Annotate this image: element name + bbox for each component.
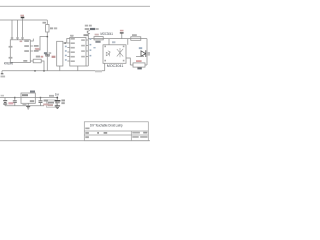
power 5V right stem [121, 33, 123, 38]
resistor R6 [133, 63, 145, 67]
pin stub U2 right y51 [86, 50, 88, 52]
label under rail faint [95, 70, 102, 72]
wire drive line left [88, 38, 147, 40]
wire VCC top rail [0, 19, 47, 21]
label C1 value [44, 52, 47, 54]
power 5V symbol bar [21, 17, 25, 19]
component box S1 [47, 100, 57, 107]
pin name IC1 inside top red [20, 41, 23, 43]
svg-text:ATMEGA8: ATMEGA8 [4, 62, 13, 66]
pin stub U2 right y45.5 [86, 45, 88, 47]
label R6 red above [136, 60, 142, 62]
label U2 ref top [84, 34, 89, 36]
resistor R5 [131, 37, 141, 41]
wire R1 to reset node [46, 32, 48, 71]
triac Q2 [141, 50, 146, 57]
pin number smudges U2 left blue [65, 46, 67, 48]
pin number opto pin1 wire [93, 47, 95, 48]
title block frame [84, 122, 148, 141]
junction dot rail x44 [43, 70, 44, 72]
label R1 value [50, 27, 53, 29]
net labels IC1 right stubs [34, 45, 39, 47]
pin stub IC1 right y46 [30, 45, 33, 47]
wire triac gate [136, 56, 144, 58]
ground rail bottom [5, 105, 44, 107]
capacitor C2 [14, 98, 16, 101]
pin stub IC1 right y61 to R2 [30, 60, 33, 62]
junction dot rail x14.8 [14, 97, 16, 99]
pin stub U2 right y56.5 [86, 56, 88, 58]
title block h divider 1 [84, 130, 148, 132]
capacitor C4 5V [56, 98, 58, 101]
battery B1 [4, 98, 6, 101]
wire right vertical [146, 39, 148, 65]
resistor R4 [94, 37, 103, 40]
ground symbol regulator [26, 105, 30, 107]
pin stub U2 left y61 [67, 60, 70, 62]
pin names IC1 left outside [9, 46, 13, 48]
label net RESET red [35, 48, 40, 50]
resistor R1 [46, 25, 49, 33]
capacitor C1 plates [45, 54, 50, 56]
label 5V net right red [120, 30, 124, 32]
power 5V arrow at C4 [56, 97, 58, 98]
wire IC1 top pin 2 [17, 20, 19, 40]
text labels and smudges [1, 15, 151, 138]
junction dot rail x57.3 [57, 97, 59, 99]
wire regulator ground [27, 103, 29, 106]
pin number smudges U2 right blue [90, 38, 92, 40]
wire rail corner down to R1 [46, 20, 48, 25]
cap C3 labels [44, 100, 48, 102]
box S1 labels [48, 102, 54, 104]
IC U2 body [70, 37, 86, 66]
label triac blue [139, 47, 142, 49]
pin numbers IC1 top [11, 37, 13, 39]
junction dot rail x35 [34, 70, 35, 72]
opto internal diode [106, 51, 110, 56]
svg-text:MOC3041: MOC3041 [107, 64, 124, 68]
pin stub opto right y58 [126, 58, 130, 65]
label 5V net red [20, 15, 24, 17]
ground rail long [2, 70, 105, 72]
wire R6 leads [130, 64, 133, 66]
opto internal triac [117, 48, 123, 57]
wire 9V rail [0, 97, 57, 99]
wire R2 to ground rail [41, 61, 44, 71]
label R5 value [132, 34, 137, 36]
pin names IC1 inside right [24, 40, 29, 42]
capacitor C3 [40, 98, 42, 101]
label 9V red [8, 102, 13, 104]
wire X1 bottom stub to ground rail [59, 66, 61, 71]
title block small texts [85, 128, 89, 130]
wire U2 right bus [87, 39, 89, 66]
wire opto pin2 to ground rail [104, 63, 106, 70]
pin stub IC1 right y51 [30, 50, 33, 52]
wire opto pin6 from drive line [127, 39, 129, 45]
label R2 value [36, 56, 40, 58]
cap C4 labels [61, 100, 65, 102]
sheet top border [0, 5, 150, 7]
sheet bottom border [0, 140, 150, 142]
label near 5V junction [49, 95, 54, 97]
pin stub IC1 right y41 [30, 39, 33, 41]
label 9V rail left faint [1, 95, 4, 97]
label R6 below [137, 68, 141, 70]
wire bus to U2 corner [86, 65, 88, 67]
ground symbol left end [1, 71, 3, 74]
title block v divider [130, 131, 132, 141]
pin stub U2 right y40 [86, 39, 88, 41]
title block h divider 2 [84, 134, 148, 136]
pin stub U2 left y47.5 [67, 47, 70, 49]
power 5V symbol stem [22, 18, 24, 40]
junction dot y43 [64, 42, 66, 44]
wire opto pin1 from drive line [108, 39, 110, 45]
pin stub U2 bottom ground [77, 66, 79, 71]
wire X1 to U2 pin y43 [63, 42, 70, 44]
wire IC1 top pin 1 [11, 20, 13, 40]
net label opto pin1 [112, 41, 115, 43]
labels U2 pins inside right [81, 39, 85, 41]
resistor R2 [33, 59, 41, 63]
regulator labels [22, 94, 28, 96]
label GND under left ground [1, 76, 6, 78]
pin stub U2 top [71, 35, 73, 37]
wire reset branch [36, 37, 47, 51]
opto U3 body [103, 45, 126, 64]
regulator IC2 body [21, 93, 35, 103]
junction dot reset branch [47, 36, 49, 37]
pin stub U2 left y52 [67, 51, 70, 53]
wire Q1 to resistor line [87, 34, 89, 39]
opto pin numbers [104, 46, 106, 48]
svg-text:DIY Touchable Droid Lamp: DIY Touchable Droid Lamp [90, 123, 123, 127]
ground symbol C4 [55, 105, 60, 107]
transistor Q1 marks [87, 30, 90, 34]
label Q1 two lines [85, 25, 88, 27]
labels U2 pins inside left [71, 38, 75, 40]
junction dot rail x40.5 [40, 97, 42, 99]
svg-text:MOC3041: MOC3041 [101, 32, 114, 36]
wire U2 pin y38.5 corner [67, 39, 70, 44]
IC U1 ATMEGA8 body [10, 40, 30, 63]
component X1 tall box [57, 41, 63, 66]
label R4 value [95, 41, 100, 43]
pin stub U2 left y56.5 [67, 56, 70, 58]
